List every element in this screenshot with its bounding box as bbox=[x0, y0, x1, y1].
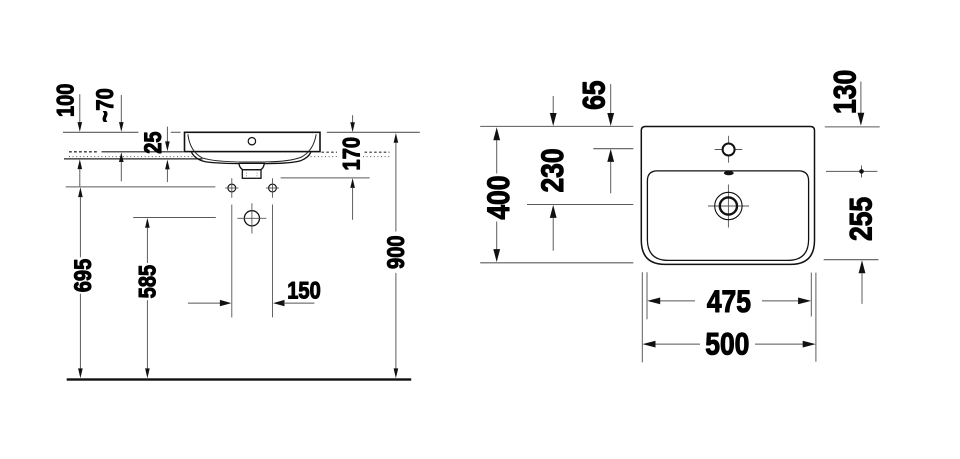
dimension 100 bbox=[52, 84, 83, 187]
overflow slot bbox=[724, 171, 734, 175]
svg-text:100: 100 bbox=[52, 84, 79, 118]
dimension 150 bbox=[188, 276, 321, 306]
svg-text:230: 230 bbox=[536, 148, 571, 192]
dot terminator + dimension 255 bbox=[844, 166, 879, 304]
svg-text:400: 400 bbox=[482, 176, 517, 220]
dimension 475 bbox=[647, 272, 811, 319]
585 reference line bbox=[133, 217, 216, 219]
console bottom solid line (100 level) bbox=[64, 158, 203, 160]
drain pipe box (side view) bbox=[242, 170, 261, 179]
svg-text:25: 25 bbox=[139, 131, 166, 153]
dimension 585 bbox=[134, 218, 161, 378]
dashed line right of basin bbox=[322, 151, 390, 153]
drain (front) bbox=[708, 185, 749, 228]
drain level line (230) bbox=[527, 204, 633, 206]
console top solid line bbox=[102, 151, 184, 153]
svg-text:475: 475 bbox=[707, 285, 751, 320]
svg-text:~70: ~70 bbox=[91, 88, 118, 122]
tap level line (65) bbox=[593, 148, 633, 150]
floor line bbox=[67, 378, 412, 380]
dashed installation line (~70 level) bbox=[69, 151, 99, 153]
695 reference line bbox=[66, 186, 216, 188]
tap hole (side view) bbox=[248, 138, 255, 145]
drain outlet crosshair (side view) bbox=[237, 203, 266, 233]
dimension 900 bbox=[382, 133, 409, 378]
basin inner bowl outline (front) bbox=[647, 171, 808, 261]
basin outer bowl bulge bbox=[192, 152, 311, 163]
svg-text:585: 585 bbox=[134, 265, 161, 299]
dimension 695 bbox=[69, 187, 96, 378]
dimension 170 bbox=[337, 115, 364, 220]
svg-text:500: 500 bbox=[705, 327, 749, 362]
dimension 500 bbox=[642, 272, 816, 362]
dimension 400 bbox=[482, 127, 517, 262]
basin outer outline (front) bbox=[641, 127, 814, 265]
svg-text:65: 65 bbox=[578, 80, 613, 109]
bottom reference line bbox=[480, 262, 633, 264]
right fixing hole bbox=[266, 178, 279, 198]
top reference line bbox=[480, 125, 633, 127]
svg-text:150: 150 bbox=[287, 276, 321, 303]
svg-text:130: 130 bbox=[829, 70, 864, 114]
basin inner bowl curve bbox=[188, 134, 316, 162]
dimension 130 bbox=[829, 70, 865, 126]
top reference line (rim level) bbox=[63, 131, 420, 133]
170 bottom reference line bbox=[281, 177, 370, 179]
svg-text:900: 900 bbox=[382, 235, 409, 269]
basin side-view rim box bbox=[185, 132, 321, 151]
extension lines for 150 bbox=[231, 205, 233, 318]
dimension 25 bbox=[139, 127, 170, 183]
dimension 230 bbox=[536, 96, 571, 251]
svg-text:255: 255 bbox=[844, 197, 879, 241]
fine dotted line (25 below) bbox=[69, 156, 390, 158]
svg-text:695: 695 bbox=[69, 259, 96, 293]
svg-text:170: 170 bbox=[337, 137, 364, 171]
drain flange (side view) bbox=[239, 163, 264, 169]
dimension 65 bbox=[578, 80, 614, 193]
right side reference lines bbox=[825, 126, 880, 128]
dimension ~70 bbox=[91, 88, 124, 181]
tap hole (front) bbox=[715, 136, 743, 163]
left fixing hole bbox=[225, 178, 238, 198]
